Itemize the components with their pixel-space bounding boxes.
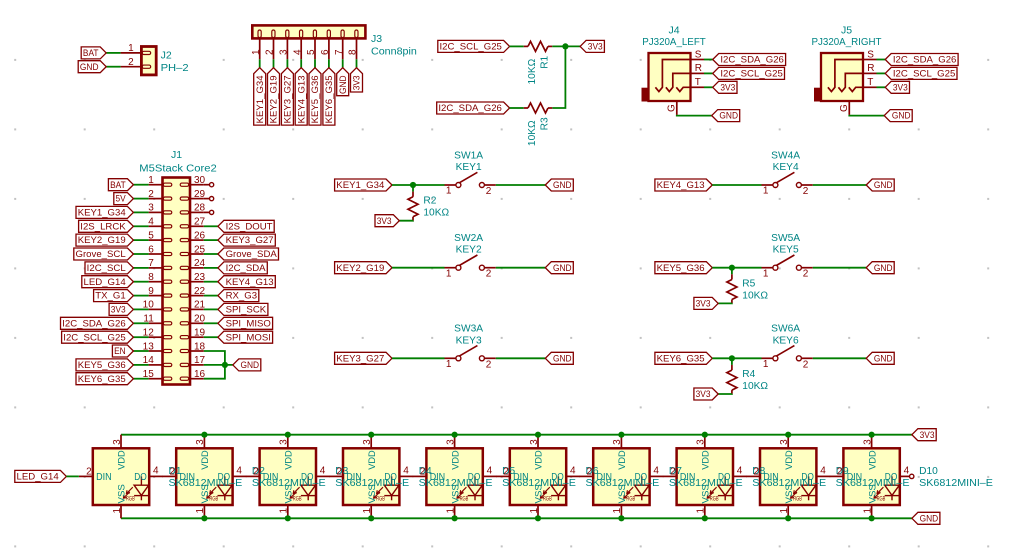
svg-text:I2S_DOUT: I2S_DOUT [226, 221, 273, 232]
J1 pin 9 [148, 286, 162, 297]
svg-text:2: 2 [148, 189, 154, 200]
wire J1 pin 25 to label [204, 253, 218, 255]
svg-text:G: G [667, 104, 678, 112]
svg-text:I2C_SCL_G25: I2C_SCL_G25 [893, 69, 955, 80]
wire KEY2_G19 to SW2A pin 1 [392, 267, 445, 269]
switch SW4A [762, 172, 813, 197]
J1 pin 7 [148, 258, 162, 269]
svg-text:2: 2 [670, 466, 676, 477]
svg-text:KEY3_G27: KEY3_G27 [226, 235, 274, 246]
LED D2 body [176, 448, 232, 505]
junction D7 VDD rail [618, 432, 624, 438]
svg-text:1: 1 [446, 359, 452, 370]
global label KEY1_G34 (SW1A) [335, 179, 392, 191]
svg-text:KEY2: KEY2 [456, 245, 482, 256]
LED D4 body [343, 448, 399, 505]
svg-text:3: 3 [148, 203, 154, 214]
D9 pin 4 (DO) [816, 465, 830, 476]
svg-text:PH–2: PH–2 [161, 62, 189, 74]
junction D3 VSS rail [285, 515, 291, 521]
svg-text:KEY6: KEY6 [773, 335, 799, 346]
global label KEY5_G36 (J3) [309, 68, 321, 125]
J1 pin 28 no-connect circle [204, 210, 214, 214]
D5 pin 2 (DIN) [413, 466, 427, 477]
wire I2C_SCL_G25 to R1 [510, 45, 524, 47]
svg-text:3: 3 [529, 439, 540, 445]
svg-text:I2C_SCL_G25: I2C_SCL_G25 [720, 69, 782, 80]
wire J1 pin 12 to label [133, 336, 148, 338]
junction D6 VSS rail [535, 515, 541, 521]
D10 pin 4 (DO) unconnected [900, 465, 914, 478]
wire J1 pin 3 to label [133, 211, 148, 213]
svg-text:LED_G14: LED_G14 [84, 277, 127, 288]
audio jack J4 body [642, 53, 691, 102]
svg-text:KEY4_G13: KEY4_G13 [657, 180, 705, 191]
global label 3V3 (R5) [694, 297, 718, 309]
global label KEY3_G27 (J1 pin 26) [218, 234, 275, 246]
svg-text:1: 1 [862, 508, 873, 514]
svg-text:KEY6_G35: KEY6_G35 [324, 75, 335, 123]
svg-text:KEY1_G34: KEY1_G34 [78, 208, 127, 219]
wire J1 pin 21 to label [204, 308, 218, 310]
svg-text:5V: 5V [116, 194, 127, 205]
svg-text:2: 2 [803, 186, 809, 197]
wire BAT to J2 pin1 [106, 52, 120, 54]
svg-text:KEY5: KEY5 [773, 245, 799, 256]
D7 pin 1 (VSS) [612, 505, 623, 518]
D6 pin 4 (DO) [566, 465, 580, 476]
svg-text:PJ320A_LEFT: PJ320A_LEFT [642, 36, 706, 48]
svg-text:2: 2 [803, 359, 809, 370]
svg-text:GND: GND [553, 180, 572, 191]
J1 pin 30 [190, 175, 206, 186]
svg-text:2: 2 [503, 466, 509, 477]
J1 pin 8 [148, 272, 162, 283]
wire J3 pin 8 to label [356, 59, 358, 67]
global label GND (J4) [712, 110, 740, 122]
svg-text:KEY4_G13: KEY4_G13 [226, 277, 274, 288]
global label SPI_SCK (J1 pin 21) [218, 303, 268, 315]
svg-text:9: 9 [148, 286, 154, 297]
svg-text:KEY2_G19: KEY2_G19 [269, 75, 280, 123]
wire J1 pin 22 to label [204, 295, 218, 297]
svg-text:GND: GND [553, 263, 572, 274]
wire J1 pin 23 to label [204, 281, 218, 283]
svg-text:1: 1 [128, 43, 134, 54]
svg-text:GND: GND [892, 111, 911, 122]
svg-text:10KΩ: 10KΩ [527, 58, 538, 84]
svg-text:3V3: 3V3 [352, 75, 363, 90]
svg-text:GND: GND [874, 180, 893, 191]
D7 pin 3 (VDD) [612, 435, 623, 449]
global label I2C_SDA (J1 pin 24) [218, 262, 267, 274]
global label GND (SW1A) [545, 179, 573, 191]
LED D10 body [843, 448, 899, 505]
svg-text:I2C_SCL: I2C_SCL [87, 263, 127, 274]
global label Grove_SCL (J1 pin 6) [74, 248, 134, 260]
J2 pin 2 [121, 57, 142, 68]
connector J2 body [141, 47, 156, 75]
svg-text:10KΩ: 10KΩ [423, 208, 449, 219]
svg-text:3V3: 3V3 [588, 42, 603, 53]
D5 pin 4 (DO) [483, 465, 497, 476]
global label 3V3 (J3) [351, 68, 363, 92]
svg-text:EN: EN [114, 346, 126, 357]
LED D7 body [593, 448, 649, 505]
svg-text:S: S [695, 49, 702, 60]
J1 pin 23 [190, 272, 206, 283]
wire KEY5_G36 to SW5A pin 1 [712, 267, 761, 269]
global label 3V3 (LED rail) [912, 429, 936, 441]
svg-text:PJ320A_RIGHT: PJ320A_RIGHT [812, 36, 883, 48]
global label KEY4_G13 (SW4A) [655, 179, 712, 191]
svg-text:3: 3 [779, 439, 790, 445]
global label I2C_SDA_G26 (J1 pin 11) [61, 317, 134, 329]
svg-text:1: 1 [763, 268, 769, 279]
J5 pin G [839, 101, 850, 115]
J3 pin 1 [251, 38, 262, 59]
J3 pin 8 [348, 38, 359, 59]
svg-text:SW2A: SW2A [454, 233, 483, 244]
global label BAT [81, 47, 106, 59]
wire J3 pin 7 to label [342, 59, 344, 67]
junction D6 VDD rail [535, 432, 541, 438]
svg-text:T: T [867, 77, 873, 88]
svg-text:3: 3 [279, 49, 290, 55]
wire J5 pin G to GND [849, 114, 884, 117]
junction D10 VSS rail [869, 515, 875, 521]
wire J1 pin 11 to label [133, 322, 148, 324]
junction D4 VSS rail [368, 515, 374, 521]
global label BAT (J1 pin 1) [108, 179, 133, 191]
global label GND (J3) [337, 68, 349, 96]
svg-text:GND: GND [719, 111, 738, 122]
wire junction to R5 [731, 268, 733, 275]
svg-text:I2S_LRCK: I2S_LRCK [80, 221, 126, 232]
global label KEY1_G34 (J1 pin 3) [76, 206, 133, 218]
J3 pin 2 [265, 38, 276, 59]
svg-text:I2C_SDA: I2C_SDA [226, 263, 267, 274]
svg-text:VDD: VDD [117, 450, 128, 469]
wire J1 pin 26 to label [204, 239, 218, 241]
D5 pin 3 (VDD) [445, 435, 456, 449]
switch SW6A [762, 346, 813, 371]
svg-text:VDD: VDD [200, 450, 211, 469]
svg-text:4: 4 [403, 465, 409, 476]
D7 pin 4 (DO) [650, 465, 664, 476]
svg-text:SW4A: SW4A [771, 150, 800, 161]
global label LED_G14 [15, 470, 67, 482]
wire I2C_SDA_G26 to R3 [510, 107, 524, 109]
global label KEY3_G27 (J3) [281, 68, 293, 125]
wire J1 pin 19 to label [204, 336, 218, 338]
wire J5 pin R to label [877, 72, 886, 74]
wire R5 to 3V3 [718, 302, 732, 304]
svg-text:KEY4_G13: KEY4_G13 [296, 75, 307, 123]
LED D8 body [677, 448, 733, 505]
wire J1 pin 20 to label [204, 322, 218, 324]
svg-text:1: 1 [763, 186, 769, 197]
svg-text:DIN: DIN [346, 472, 362, 483]
junction D5 VDD rail [452, 432, 458, 438]
global label 3V3 (pullups) [580, 40, 604, 52]
svg-text:2: 2 [420, 466, 426, 477]
junction R4 [729, 355, 735, 361]
svg-text:VSS: VSS [117, 484, 128, 503]
D2 pin 2 (DIN) [162, 466, 176, 477]
J1 pin 2 [148, 189, 162, 200]
D10 pin 1 (VSS) [862, 505, 873, 518]
svg-text:3: 3 [445, 439, 456, 445]
wire J1 pin 6 to label [133, 253, 148, 255]
svg-text:SPI_MOSI: SPI_MOSI [226, 332, 271, 343]
svg-text:1: 1 [362, 508, 373, 514]
svg-text:4: 4 [653, 465, 659, 476]
D1 pin 1 (VSS) [112, 505, 123, 518]
svg-text:DO: DO [801, 472, 814, 483]
audio jack J5 body [814, 53, 863, 102]
svg-text:SW3A: SW3A [454, 324, 483, 335]
junction R5 [729, 265, 735, 271]
svg-text:10KΩ: 10KΩ [742, 381, 768, 392]
global label I2C_SDA_G26 [437, 102, 510, 114]
svg-text:VDD: VDD [367, 450, 378, 469]
svg-text:DO: DO [551, 472, 564, 483]
svg-text:VSS: VSS [367, 484, 378, 503]
J1 pin 15 [143, 369, 163, 380]
global label TX_G1 (J1 pin 9) [94, 290, 134, 302]
global label SPI_MISO (J1 pin 20) [218, 317, 273, 329]
svg-text:J5: J5 [841, 25, 852, 37]
global label KEY6_G35 (J1 pin 15) [76, 373, 133, 385]
wire J1 pin 17 to GND [204, 364, 233, 366]
global label GND (J1) [233, 359, 261, 371]
svg-text:KEY1_G34: KEY1_G34 [336, 180, 385, 191]
wire J1 pin 1 to label [133, 184, 148, 186]
global label 3V3 (J5) [885, 81, 909, 93]
svg-text:I2C_SDA_G26: I2C_SDA_G26 [893, 55, 957, 66]
svg-text:4: 4 [570, 465, 576, 476]
svg-text:1: 1 [763, 359, 769, 370]
svg-text:DO: DO [218, 472, 231, 483]
J1 pin 16 [190, 369, 206, 380]
global label KEY3_G27 (SW3A) [335, 352, 392, 364]
global label Grove_SDA (J1 pin 25) [218, 248, 279, 260]
svg-text:1: 1 [529, 508, 540, 514]
wire SW5A pin 2 to GND [813, 267, 866, 269]
svg-text:VSS: VSS [784, 484, 795, 503]
J5 pin T [863, 77, 877, 88]
svg-text:1: 1 [445, 508, 456, 514]
global label KEY1_G34 (J3) [254, 68, 266, 125]
svg-text:3V3: 3V3 [377, 216, 392, 227]
global label EN (J1 pin 13) [112, 345, 133, 357]
wire R4 to 3V3 [718, 393, 732, 395]
svg-text:DIN: DIN [180, 472, 196, 483]
svg-text:DO: DO [718, 472, 731, 483]
LED D1 body [93, 448, 149, 505]
wire junction down to R3 [552, 46, 565, 108]
J2 pin 1 [121, 43, 142, 54]
wire J1 pin 2 to label [133, 198, 148, 200]
svg-text:2: 2 [803, 269, 809, 280]
global label GND (SW4A) [866, 179, 894, 191]
svg-text:DO: DO [468, 472, 481, 483]
svg-text:3: 3 [696, 439, 707, 445]
J1 pin 20 [190, 314, 206, 325]
D4 pin 1 (VSS) [362, 505, 373, 518]
svg-text:2: 2 [253, 466, 259, 477]
global label KEY5_G36 (J1 pin 14) [76, 359, 133, 371]
global label KEY2_G19 (J1 pin 5) [76, 234, 133, 246]
wire R1 to 3V3 [552, 45, 580, 47]
svg-text:2: 2 [128, 57, 134, 68]
svg-text:4: 4 [292, 49, 303, 55]
svg-text:4: 4 [904, 465, 910, 476]
svg-text:VSS: VSS [701, 484, 712, 503]
svg-text:R: R [695, 63, 702, 74]
svg-text:DIN: DIN [680, 472, 696, 483]
LED D6 body [510, 448, 566, 505]
global label KEY6_G35 (J3) [323, 68, 335, 125]
J1 pin 29 no-connect circle [204, 197, 214, 201]
svg-text:3V3: 3V3 [720, 82, 735, 93]
svg-text:6: 6 [320, 49, 331, 55]
wire KEY1_G34 to SW1A pin 1 [392, 184, 445, 186]
svg-text:4: 4 [737, 465, 743, 476]
wire J1 pin 5 to label [133, 239, 148, 241]
svg-text:R2: R2 [423, 196, 436, 207]
J1 pin 28 [190, 203, 206, 214]
J4 pin S [691, 49, 705, 60]
svg-text:KEY3_G27: KEY3_G27 [336, 353, 384, 364]
svg-text:KEY5_G36: KEY5_G36 [78, 360, 126, 371]
global label 3V3 (J1 pin 10) [109, 303, 133, 315]
svg-text:3: 3 [195, 439, 206, 445]
global label KEY4_G13 (J1 pin 23) [218, 276, 275, 288]
wire J3 pin 3 to label [286, 59, 288, 67]
D2 pin 3 (VDD) [195, 435, 206, 449]
junction D3 VDD rail [285, 432, 291, 438]
svg-text:KEY3_G27: KEY3_G27 [283, 75, 294, 123]
svg-text:Conn8pin: Conn8pin [371, 46, 417, 58]
global label 3V3 (J4) [713, 81, 737, 93]
svg-text:VDD: VDD [784, 450, 795, 469]
svg-text:2: 2 [265, 49, 276, 55]
svg-text:DIN: DIN [763, 472, 779, 483]
global label I2C_SCL_G25 (J5) [885, 67, 957, 79]
svg-text:2: 2 [86, 466, 92, 477]
svg-text:DO: DO [384, 472, 397, 483]
J1 pin 10 [143, 300, 163, 311]
svg-text:2: 2 [486, 359, 492, 370]
svg-text:R3: R3 [539, 117, 550, 130]
J1 pin 3 [148, 203, 162, 214]
svg-text:SW1A: SW1A [454, 150, 483, 161]
svg-text:I2C_SDA_G26: I2C_SDA_G26 [62, 318, 125, 329]
svg-text:GND: GND [80, 62, 99, 73]
global label 3V3 (R4) [694, 388, 718, 400]
svg-text:DIN: DIN [263, 472, 279, 483]
svg-text:T: T [695, 77, 701, 88]
D3 pin 2 (DIN) [246, 466, 260, 477]
J1 pin 19 [190, 328, 206, 339]
junction D9 VDD rail [785, 432, 791, 438]
svg-text:1: 1 [195, 508, 206, 514]
resistor R5 [727, 274, 737, 303]
svg-text:TX_G1: TX_G1 [95, 291, 125, 302]
svg-text:2: 2 [753, 466, 759, 477]
svg-text:6: 6 [148, 244, 154, 255]
wire J1 pin 18 to GND bus [204, 351, 225, 379]
svg-text:KEY2_G19: KEY2_G19 [336, 263, 384, 274]
wire J1 pin 15 to label [133, 378, 148, 380]
svg-text:GND: GND [553, 353, 572, 364]
svg-text:BAT: BAT [83, 48, 99, 59]
wire LED_G14 to D1 DIN [66, 475, 79, 477]
global label GND (SW3A) [545, 352, 573, 364]
wire junction to R2 [412, 185, 414, 192]
svg-text:10KΩ: 10KΩ [742, 290, 768, 301]
global label SPI_MOSI (J1 pin 19) [218, 331, 273, 343]
svg-text:3: 3 [279, 439, 290, 445]
J1 pin 5 [148, 230, 162, 241]
J1 pin 25 [190, 244, 206, 255]
svg-text:4: 4 [487, 465, 493, 476]
svg-text:R1: R1 [539, 55, 550, 68]
D6 pin 2 (DIN) [496, 466, 510, 477]
switch SW3A [445, 346, 496, 371]
wire SW1A pin 2 to GND [496, 184, 546, 186]
connector J3 body [252, 25, 365, 38]
D6 pin 3 (VDD) [529, 435, 540, 449]
J3 pin 6 [320, 38, 331, 59]
global label GND (LED rail) [912, 512, 940, 524]
svg-text:VSS: VSS [534, 484, 545, 503]
svg-text:KEY6_G35: KEY6_G35 [78, 374, 126, 385]
wire J5 pin S to label [877, 59, 886, 61]
svg-text:S: S [867, 49, 874, 60]
junction R2 [410, 182, 416, 188]
svg-text:Grove_SDA: Grove_SDA [226, 249, 278, 260]
D10 pin 3 (VDD) [862, 435, 873, 449]
svg-text:RX_G3: RX_G3 [226, 291, 258, 302]
svg-text:J3: J3 [371, 33, 382, 45]
svg-text:2: 2 [587, 466, 593, 477]
J1 pin 22 [190, 286, 206, 297]
svg-text:SPI_MISO: SPI_MISO [226, 318, 271, 329]
J1 pin 4 [148, 217, 162, 228]
junction R1/R3/3V3 [562, 43, 568, 49]
svg-text:1: 1 [148, 175, 154, 186]
svg-text:SW5A: SW5A [771, 233, 800, 244]
svg-text:G: G [839, 104, 850, 112]
svg-text:3: 3 [362, 439, 373, 445]
D8 pin 3 (VDD) [696, 435, 707, 449]
svg-text:1: 1 [251, 49, 262, 55]
LED D9 body [760, 448, 816, 505]
svg-text:DIN: DIN [597, 472, 613, 483]
svg-text:DIN: DIN [96, 472, 112, 483]
D4 pin 3 (VDD) [362, 435, 373, 449]
resistor R4 [727, 365, 737, 394]
svg-text:KEY1: KEY1 [456, 162, 482, 173]
svg-text:LED_G14: LED_G14 [17, 472, 60, 483]
D9 pin 3 (VDD) [779, 435, 790, 449]
svg-text:KEY6_G35: KEY6_G35 [657, 353, 705, 364]
wire SW4A pin 2 to GND [813, 184, 866, 186]
J1 pin 24 [190, 258, 206, 269]
